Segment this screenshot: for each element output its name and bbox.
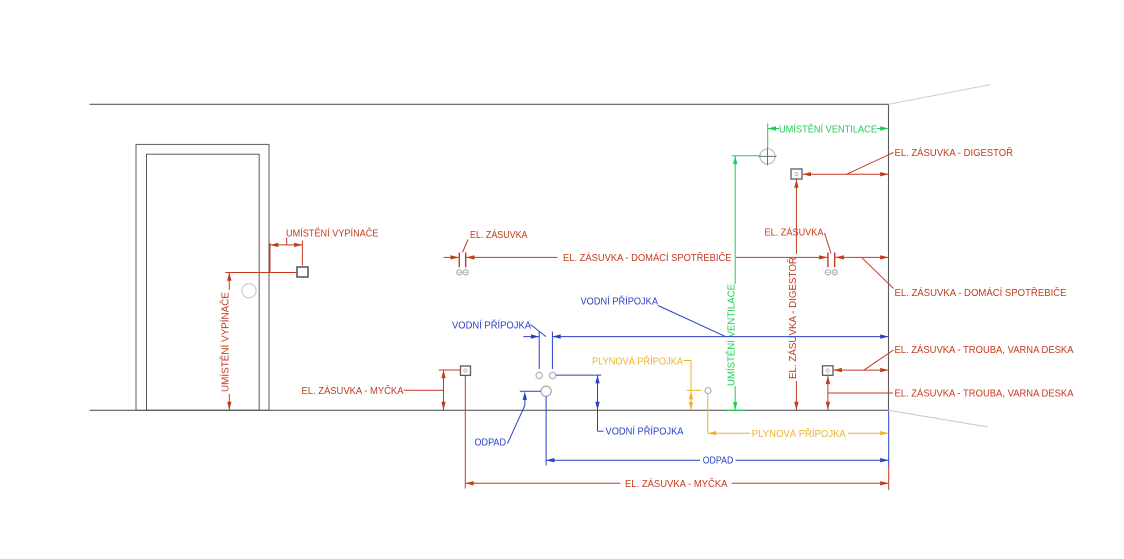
svg-text:EL. ZÁSUVKA - DIGESTOŘ: EL. ZÁSUVKA - DIGESTOŘ (895, 146, 1014, 159)
svg-text:UMÍSTĚNÍ VENTILACE: UMÍSTĚNÍ VENTILACE (725, 284, 738, 386)
svg-text:VODNÍ PŘÍPOJKA: VODNÍ PŘÍPOJKA (606, 425, 684, 438)
svg-text:UMÍSTĚNÍ VYPÍNAČE: UMÍSTĚNÍ VYPÍNAČE (219, 292, 232, 392)
svg-text:UMÍSTĚNÍ VENTILACE: UMÍSTĚNÍ VENTILACE (779, 123, 877, 136)
svg-text:EL. ZÁSUVKA - DIGESTOŘ: EL. ZÁSUVKA - DIGESTOŘ (786, 257, 799, 379)
svg-text:EL. ZÁSUVKA - DOMÁCÍ SPOTŘEBIČ: EL. ZÁSUVKA - DOMÁCÍ SPOTŘEBIČE (563, 251, 732, 264)
svg-text:PLYNOVÁ PŘÍPOJKA: PLYNOVÁ PŘÍPOJKA (592, 355, 683, 368)
svg-text:EL. ZÁSUVKA - TROUBA, VARNA DE: EL. ZÁSUVKA - TROUBA, VARNA DESKA (895, 343, 1074, 356)
svg-text:VODNÍ PŘÍPOJKA: VODNÍ PŘÍPOJKA (452, 319, 531, 332)
svg-text:EL. ZÁSUVKA - MYČKA: EL. ZÁSUVKA - MYČKA (302, 384, 404, 397)
svg-text:EL. ZÁSUVKA - TROUBA, VARNA DE: EL. ZÁSUVKA - TROUBA, VARNA DESKA (895, 387, 1074, 400)
svg-text:EL. ZÁSUVKA: EL. ZÁSUVKA (765, 226, 824, 239)
svg-text:VODNÍ PŘÍPOJKA: VODNÍ PŘÍPOJKA (581, 295, 659, 308)
svg-text:PLYNOVÁ PŘÍPOJKA: PLYNOVÁ PŘÍPOJKA (752, 427, 846, 440)
svg-text:EL. ZÁSUVKA - DOMÁCÍ SPOTŘEBIČ: EL. ZÁSUVKA - DOMÁCÍ SPOTŘEBIČE (895, 286, 1067, 299)
svg-text:EL. ZÁSUVKA: EL. ZÁSUVKA (470, 228, 528, 241)
svg-text:UMÍSTĚNÍ VYPÍNAČE: UMÍSTĚNÍ VYPÍNAČE (286, 227, 379, 240)
svg-text:ODPAD: ODPAD (703, 456, 734, 467)
svg-text:ODPAD: ODPAD (475, 438, 507, 449)
svg-text:EL. ZÁSUVKA - MYČKA: EL. ZÁSUVKA - MYČKA (625, 477, 728, 490)
